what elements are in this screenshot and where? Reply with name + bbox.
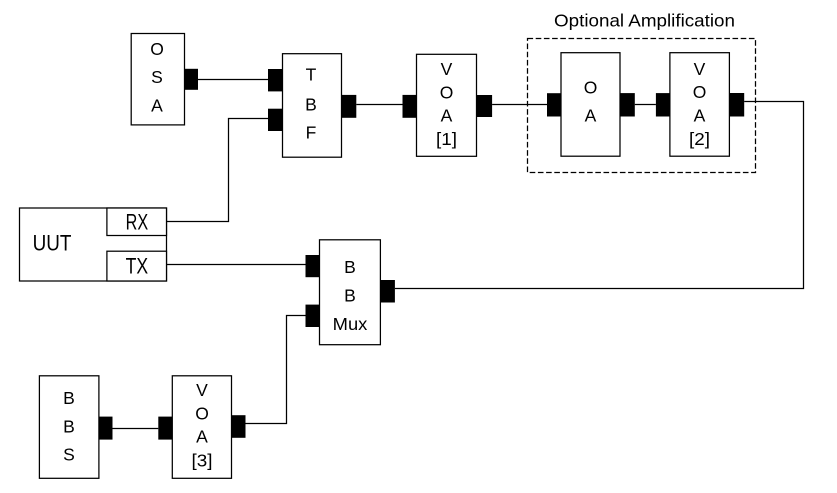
svg-text:O: O	[440, 82, 454, 102]
svg-text:A: A	[151, 96, 163, 116]
svg-text:O: O	[195, 403, 209, 423]
svg-text:S: S	[63, 445, 75, 465]
svg-text:B: B	[63, 416, 75, 436]
svg-text:O: O	[150, 39, 164, 59]
svg-text:A: A	[441, 106, 453, 126]
svg-text:A: A	[694, 106, 706, 126]
svg-text:A: A	[585, 106, 597, 126]
svg-text:B: B	[344, 257, 356, 277]
svg-text:[3]: [3]	[192, 451, 213, 471]
svg-text:F: F	[306, 123, 317, 143]
svg-text:A: A	[196, 427, 208, 447]
svg-text:UUT: UUT	[33, 231, 72, 256]
svg-text:TX: TX	[126, 253, 149, 278]
svg-text:Mux: Mux	[333, 314, 368, 334]
svg-text:V: V	[694, 59, 706, 79]
svg-text:V: V	[441, 59, 453, 79]
svg-text:O: O	[693, 82, 707, 102]
svg-text:B: B	[305, 95, 317, 115]
svg-text:O: O	[584, 77, 598, 97]
svg-text:RX: RX	[126, 209, 149, 234]
svg-text:B: B	[344, 286, 356, 306]
svg-text:[2]: [2]	[689, 129, 710, 149]
svg-text:V: V	[196, 380, 208, 400]
svg-text:S: S	[151, 67, 163, 87]
svg-text:B: B	[63, 388, 75, 408]
svg-text:T: T	[306, 65, 317, 85]
svg-text:Optional Amplification: Optional Amplification	[554, 11, 735, 31]
svg-text:[1]: [1]	[436, 129, 457, 149]
